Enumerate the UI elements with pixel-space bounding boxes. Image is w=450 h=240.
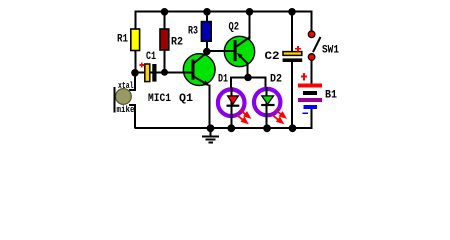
svg-text:C2: C2 (265, 51, 280, 63)
svg-text:R2: R2 (171, 37, 183, 49)
svg-text:R1: R1 (117, 34, 128, 46)
svg-text:D2: D2 (270, 74, 282, 86)
svg-text:D1: D1 (218, 74, 228, 86)
svg-text:MIC1: MIC1 (148, 93, 171, 105)
svg-text:SW1: SW1 (322, 45, 339, 57)
svg-text:xtal: xtal (118, 81, 134, 91)
svg-text:Q2: Q2 (229, 22, 240, 34)
svg-text:mike: mike (117, 105, 135, 115)
svg-text:B1: B1 (325, 90, 337, 102)
svg-text:C1: C1 (146, 51, 156, 63)
svg-text:R3: R3 (188, 26, 198, 38)
svg-text:Q1: Q1 (179, 93, 193, 105)
